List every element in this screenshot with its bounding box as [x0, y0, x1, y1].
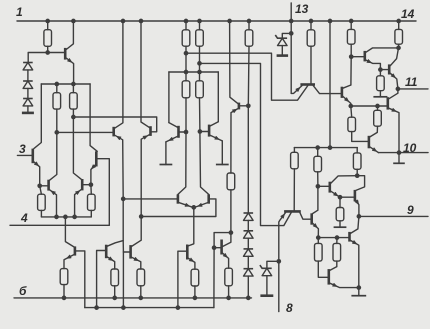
wire pin 8 lead — [278, 261, 280, 311]
wire VD7 to rail1 — [247, 276, 249, 298]
wire B0 emitter — [64, 255, 74, 269]
wire R6 top — [185, 21, 187, 30]
svg-text:10: 10 — [403, 141, 417, 155]
ground output — [351, 288, 366, 296]
wire pin 9 lead — [359, 215, 428, 217]
wire QA base — [351, 56, 364, 58]
resistor R14 — [137, 269, 145, 286]
svg-text:3: 3 — [19, 142, 26, 156]
resistor R6 — [182, 30, 190, 46]
wire QD collector — [343, 85, 351, 88]
wire common down to B0 collector — [65, 217, 74, 247]
wire R2 node down to T5 — [50, 132, 57, 180]
wire VD5-VD6 — [247, 238, 249, 249]
wire R2 top — [56, 84, 58, 93]
node T4em-T6base — [89, 182, 94, 187]
node rail1 VD7 — [246, 296, 251, 301]
transistor MTL — [177, 126, 180, 138]
wire RAIL2 bias — [85, 307, 214, 309]
svg-text:8: 8 — [286, 301, 293, 315]
pin 14 label — [401, 7, 415, 21]
transistor T7 — [177, 194, 180, 203]
diode VD1 — [23, 63, 33, 70]
wire T1 emitter — [66, 58, 73, 84]
wire y147 line — [294, 147, 357, 149]
wire R14 bottom — [140, 286, 142, 298]
node B4 collector loop — [229, 230, 234, 235]
node rail x249 — [247, 19, 252, 24]
wire R26 top — [339, 197, 341, 207]
wire pin 4 lead — [10, 224, 109, 226]
node rail x73 — [71, 19, 76, 24]
transistor T3 — [31, 149, 34, 164]
wire node to diode chain — [28, 53, 48, 63]
wire QC collector — [389, 89, 398, 99]
wire B1 emitter — [107, 257, 115, 269]
wire pin 3 lead — [17, 154, 31, 156]
wire Q1 collector to QD base — [313, 86, 341, 94]
wire R21 bottom to QE collector — [370, 126, 378, 137]
node rail x291 — [289, 19, 294, 24]
pin 13 label — [295, 2, 309, 16]
wire T5 emitter — [50, 190, 57, 217]
resistor R20 — [377, 76, 385, 91]
node pin 10 — [397, 150, 402, 155]
node QG collector — [355, 173, 360, 178]
diode VD7 — [244, 269, 254, 276]
wire ML emitter — [115, 135, 124, 199]
wire QJ base line — [318, 237, 348, 239]
wire R28 top — [336, 238, 338, 244]
transistor B2 — [129, 245, 132, 259]
wire QA collector — [366, 48, 399, 52]
resistor R12 — [60, 269, 68, 285]
wire QG base — [318, 185, 329, 187]
wire R20 top — [379, 70, 381, 76]
ground MTR emitter — [216, 141, 229, 165]
node common T6em — [72, 215, 77, 220]
wire T1 collector — [66, 21, 73, 50]
wire y72 bus — [169, 71, 218, 73]
ground R20 — [373, 91, 387, 97]
wire QG collector — [331, 176, 357, 184]
wire TR emitter — [313, 223, 319, 237]
wire tail to B3 collector — [188, 207, 194, 246]
node R21 top — [375, 104, 380, 109]
wire T7 base line — [123, 198, 177, 200]
wire B4 base — [214, 247, 221, 249]
node common T5em — [54, 215, 59, 220]
node rail x186 — [184, 19, 189, 24]
resistor R18 — [347, 29, 355, 44]
node y147 x317 — [315, 145, 320, 150]
transistor QC — [386, 97, 389, 109]
wire R17 top — [310, 21, 312, 30]
wire R13 bottom — [114, 286, 116, 298]
resistor R1 — [44, 30, 52, 47]
node QM base — [246, 103, 251, 108]
wire QM base — [240, 105, 248, 107]
wire tap y132 to ML base — [57, 131, 113, 133]
resistor R5 — [88, 194, 96, 210]
wire R11 bottom column — [247, 46, 250, 106]
resistor R8 — [182, 81, 190, 98]
wire QG emitter — [331, 191, 340, 197]
wire Q2 emitter — [279, 212, 286, 261]
wire VD1-VD2 — [27, 70, 29, 81]
wire QE emitter — [370, 147, 379, 153]
wire Q1 second collector — [186, 53, 308, 100]
wire MTR emitter — [210, 135, 222, 141]
wire QM emitter — [231, 109, 238, 173]
wire QJ emitter — [351, 240, 359, 287]
wire VD2-VD3 — [27, 88, 29, 98]
node rail2 B1 — [94, 305, 99, 310]
wire R15 bottom — [194, 286, 196, 298]
node rail x141 — [139, 19, 144, 24]
node rail1 R12 — [62, 296, 67, 301]
wire R5 bottom — [90, 210, 92, 217]
wire B4 base to RAIL2 — [213, 248, 215, 308]
resistor R26 — [336, 208, 344, 221]
ground zener2 — [260, 294, 273, 297]
wire MTL collector — [169, 123, 178, 128]
wire node line y84 — [41, 83, 90, 85]
wire R2 bottom — [56, 109, 58, 132]
resistor R3 — [70, 93, 78, 109]
wire R24 bottom — [317, 172, 319, 187]
wire R21 top lead — [377, 106, 379, 110]
wire R19 bottom — [398, 44, 400, 48]
wire R3 bottom — [72, 109, 74, 117]
transistor B0 — [74, 246, 77, 255]
node rail x311 — [309, 19, 314, 24]
node rail1 R14 — [138, 296, 143, 301]
transistor QA — [363, 51, 366, 62]
wire T8 emitter — [195, 203, 208, 208]
wire T4 emitter — [91, 165, 96, 185]
wire QB base — [380, 69, 388, 71]
transistor T4 — [95, 151, 98, 166]
diode VD4 — [244, 213, 254, 220]
wire zener2 bottom — [266, 276, 268, 296]
transistor B4 — [220, 240, 223, 255]
wire pin 10 lead — [378, 152, 428, 154]
wire y72 left corner down — [168, 72, 170, 123]
node rail1 R16 — [226, 296, 231, 301]
wire R16 bottom — [228, 286, 230, 298]
wire pin4 riser to T4 base — [97, 159, 109, 226]
wire R1 top lead — [47, 21, 49, 30]
diode VD6 — [244, 249, 254, 256]
wire R27 bottom to TB base — [318, 261, 327, 277]
node QJ base x337 — [335, 235, 340, 240]
wire QC emitter — [389, 108, 399, 153]
wire T6 emitter — [75, 190, 82, 217]
wire Q2 second collector — [200, 63, 292, 225]
wire input common line — [41, 216, 91, 218]
wire Q1 base — [310, 46, 312, 84]
zener VD9 — [260, 265, 272, 276]
transistor QI — [354, 190, 357, 202]
wire B4 diode loop — [214, 233, 231, 248]
transistor MTR — [208, 125, 211, 137]
wire y84 right corner to T4 collector — [90, 84, 97, 151]
wire R3 top — [72, 84, 74, 93]
node common B0col — [63, 215, 68, 220]
node R7 tap y63 — [197, 61, 202, 66]
transistor T6 — [81, 179, 84, 190]
wire R22 bottom to QE base — [352, 132, 368, 142]
transistor QB — [388, 64, 391, 74]
wire R23 top — [293, 148, 295, 153]
wire B4 collector — [223, 233, 231, 247]
transistor Q2 dual pnp bar — [284, 210, 301, 213]
resistor R13 — [111, 269, 119, 286]
node rail x398 — [396, 19, 401, 24]
wire QB emitter — [390, 73, 398, 89]
diode VD3 — [23, 99, 33, 106]
node rail x47 — [45, 19, 50, 24]
wire diode column — [247, 106, 249, 213]
transistor ML — [112, 127, 115, 137]
pin 1 label — [16, 5, 23, 19]
node R3 bottom tap — [71, 115, 76, 120]
transistor QJ — [348, 232, 351, 242]
wire R10 bottom to B4 col — [230, 190, 232, 233]
node rail1 R15 — [193, 296, 198, 301]
wire R12 bottom — [63, 285, 65, 298]
wire y84 left corner to T3 collector — [34, 84, 41, 149]
zener VD8 — [275, 35, 287, 46]
wire B3 base to RAIL2 — [178, 251, 186, 307]
pin 6 label — [19, 284, 27, 298]
wire QJ collector — [351, 216, 359, 233]
node R6 tap y53 — [184, 51, 189, 56]
transistor QM — [238, 103, 241, 110]
pin 4 label — [20, 211, 28, 225]
transistor QG — [328, 182, 331, 193]
diode VD5 — [244, 231, 254, 238]
transistor T5 — [47, 180, 50, 191]
transistor QE — [368, 136, 371, 149]
resistor R24 — [314, 156, 322, 172]
wire R23 bottom to Q2 base — [293, 169, 295, 212]
node rail2 B2 — [121, 305, 126, 310]
svg-text:13: 13 — [295, 2, 309, 16]
svg-text:14: 14 — [401, 7, 415, 21]
wire RAIL1 pin 6 — [14, 297, 252, 299]
wire R28 bottom — [336, 261, 338, 267]
wire B3 emitter — [188, 258, 195, 269]
wire MTL emitter — [166, 136, 178, 142]
node T3em-T5base — [37, 183, 42, 188]
resistor R23 — [291, 152, 299, 169]
node y84 T1em — [71, 82, 76, 87]
node rail x330 — [328, 19, 333, 24]
node QA collector — [396, 46, 401, 51]
wire R1 bottom to node — [47, 46, 49, 52]
node ML emitter tap — [121, 197, 126, 202]
wire R25 bottom — [356, 169, 358, 175]
wire ML emitter continues — [122, 199, 124, 308]
pin 3 label — [19, 142, 26, 156]
node B3 base rail2 — [176, 305, 181, 310]
wire zener2 jog — [267, 261, 279, 268]
ground zener1 — [277, 54, 289, 57]
wire R3 node down to T6 — [73, 117, 81, 179]
transistor T1 — [64, 48, 67, 60]
wire node to R4 top — [40, 186, 42, 194]
pin 11 label — [405, 75, 418, 89]
wire column to diff pair R collector — [200, 132, 209, 195]
wire TB collector — [330, 267, 337, 271]
wire MR collector — [141, 21, 150, 128]
wire R9 bottom column — [199, 98, 201, 132]
node pin 11 — [396, 87, 401, 92]
node pin 8 — [276, 259, 281, 264]
node QB base — [378, 67, 383, 72]
resistor R19 — [395, 29, 403, 44]
transistor Q1 dual pnp bar — [300, 83, 315, 86]
resistor R9 — [196, 81, 204, 98]
resistor R16 — [225, 268, 233, 286]
wire R4 bottom — [40, 210, 42, 217]
wire B1 base to RAIL2 — [97, 251, 106, 308]
node B4 base — [212, 245, 217, 250]
transistor QD — [341, 87, 344, 98]
resistor R17 — [307, 30, 315, 46]
wire VD4-VD5 — [247, 220, 249, 230]
ground MTL emitter — [160, 142, 173, 165]
node MTL base — [184, 130, 189, 135]
wire Q1 emitter — [291, 86, 302, 94]
wire column to TR collector — [313, 186, 318, 213]
node rail x199 — [197, 19, 202, 24]
wire T8 base loop — [141, 199, 216, 217]
node R1-diodes-T1base — [45, 50, 50, 55]
node TB emitter — [356, 285, 361, 290]
node QG base — [316, 184, 321, 189]
pin 8 label — [286, 301, 293, 315]
svg-text:4: 4 — [20, 211, 28, 225]
transistor T8 — [207, 194, 210, 203]
wire node down to QD collector — [350, 57, 352, 85]
wire B1 collector join — [107, 241, 123, 247]
wire T7 emitter — [179, 203, 193, 208]
wire R7 top — [199, 21, 201, 30]
resistor R7 — [196, 30, 204, 46]
wire T6 base — [83, 184, 91, 186]
wire QM collector — [230, 21, 238, 104]
wire R18 top — [350, 21, 352, 29]
resistor R10 — [227, 173, 235, 190]
wire QA emitter — [366, 59, 381, 69]
node y72 left res — [184, 70, 189, 75]
diode VD2 — [23, 81, 33, 88]
wire R9 top — [199, 72, 201, 81]
resistor R22 — [348, 117, 356, 131]
node rail x123 — [121, 19, 126, 24]
svg-text:1: 1 — [16, 5, 23, 19]
wire R27 top — [317, 238, 319, 244]
ground R26 — [334, 221, 347, 227]
transistor TR — [310, 213, 313, 224]
wire MTL base — [180, 131, 187, 133]
node MR emitter tap — [139, 214, 144, 219]
resistor R15 — [191, 269, 199, 286]
wire R8 top — [185, 72, 187, 81]
wire node to R5 top — [90, 185, 92, 195]
wire B2 base — [123, 251, 129, 253]
wire y106 line — [351, 105, 387, 107]
wire B0 base to RAIL2 — [76, 251, 85, 308]
wire VD3 to end bar — [27, 106, 29, 113]
node rail x351 — [349, 19, 354, 24]
wire QB collector — [390, 48, 398, 66]
wire ML collector — [115, 21, 123, 128]
resistor R2 — [53, 93, 61, 109]
wire Q2 collector to TR base — [300, 212, 311, 219]
wire B4 emitter — [223, 253, 229, 268]
wire node to T1 base — [48, 52, 64, 54]
svg-text:б: б — [19, 284, 27, 298]
node rail x229 — [227, 19, 232, 24]
wire R25 top — [356, 148, 358, 153]
wire R6 bottom chain — [185, 46, 187, 72]
wire R19 top — [398, 21, 400, 29]
wire QI emitter — [355, 200, 359, 217]
wire B2 emitter — [132, 257, 141, 269]
resistor R4 — [38, 194, 46, 210]
node MTR base — [198, 129, 203, 134]
wire R11 top — [248, 21, 250, 30]
resistor R27 — [315, 243, 323, 261]
wire QD emitter down — [350, 106, 353, 117]
wire T3 emitter — [34, 162, 40, 186]
wire MTR base — [200, 131, 208, 133]
wire MR emitter — [141, 135, 149, 217]
node QA base — [349, 54, 354, 59]
wire QI base — [340, 196, 354, 198]
transistor B3 — [186, 245, 189, 260]
node diff pair common emitter — [191, 205, 196, 210]
wire MTR collector — [210, 122, 218, 126]
wire y72 right corner down — [217, 72, 219, 122]
transistor TB — [327, 269, 330, 285]
pin 9 label — [407, 203, 414, 217]
resistor R11 — [245, 30, 253, 46]
node y72 right res — [197, 70, 202, 75]
node QG emitter — [338, 195, 343, 200]
wire pin 11 lead — [398, 88, 428, 90]
node x330 y147 — [328, 145, 333, 150]
wire T5 base — [40, 185, 48, 187]
wire QD emitter — [343, 96, 351, 106]
wire R7 bottom chain — [199, 46, 201, 72]
resistor R21 — [374, 110, 382, 126]
wire zener1 jog — [282, 33, 291, 38]
wire R24 top — [317, 148, 319, 157]
node QD emitter — [348, 104, 353, 109]
pin 10 label — [403, 141, 417, 155]
wire zener1 bottom — [281, 46, 283, 56]
svg-text:9: 9 — [407, 203, 414, 217]
wire VD6-VD7 — [247, 256, 249, 268]
ground pin 10 — [393, 153, 405, 164]
transistor MR — [149, 126, 152, 136]
wire TB emitter — [330, 283, 359, 288]
